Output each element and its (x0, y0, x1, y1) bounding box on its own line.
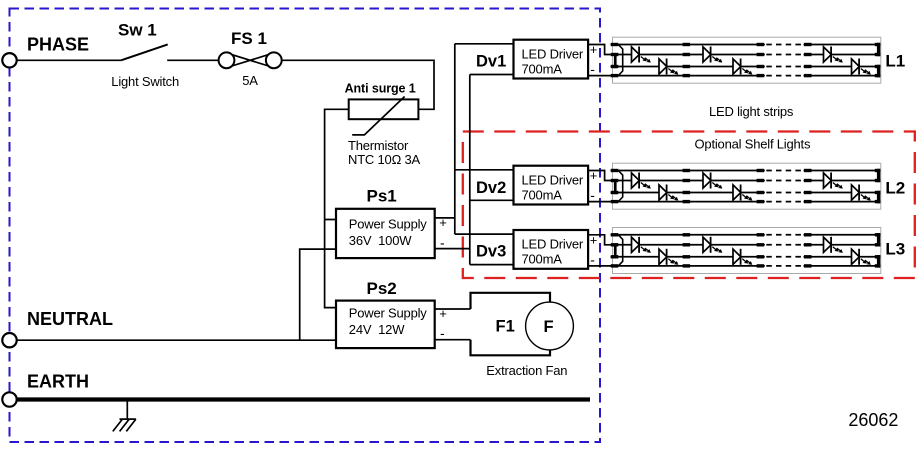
blue dashed enclosure border (10, 9, 601, 443)
LED strip L3 with driver Dv3 (514, 228, 881, 274)
svg-text:PHASE: PHASE (27, 35, 89, 55)
terminal NEUTRAL (2, 333, 16, 347)
svg-text:+: + (439, 215, 447, 230)
wire: phase run from terminal to switch (17, 59, 121, 61)
minus bus to LED drivers (470, 75, 514, 265)
svg-text:Dv3: Dv3 (476, 243, 506, 261)
svg-text:L2: L2 (885, 179, 905, 198)
earth wire (thick) (17, 397, 590, 401)
svg-text:-: - (440, 234, 445, 250)
wire: switch to fuse (167, 59, 219, 61)
svg-text:FS 1: FS 1 (231, 29, 267, 48)
svg-text:Sw 1: Sw 1 (118, 20, 157, 39)
svg-text:L3: L3 (885, 240, 905, 259)
power supply Ps2 (336, 301, 435, 349)
svg-text:+: + (439, 306, 447, 321)
svg-text:24V 12W: 24V 12W (349, 322, 405, 337)
svg-text:F: F (544, 318, 554, 336)
extraction fan F1 housing (471, 293, 551, 356)
LED strip L1 with driver Dv1 (514, 37, 881, 83)
svg-text:Dv1: Dv1 (476, 53, 506, 71)
Ps2 output wires to fan (435, 309, 471, 340)
terminal EARTH (2, 392, 16, 406)
svg-text:Light Switch: Light Switch (111, 74, 179, 89)
wire: fuse to thermistor (right drop) (282, 60, 434, 109)
svg-text:Anti surge 1: Anti surge 1 (345, 81, 416, 95)
fuse FS1 (219, 52, 282, 68)
Ps1 output wires (435, 218, 470, 249)
ground symbol (113, 400, 136, 432)
power supply Ps1 (336, 209, 435, 258)
svg-text:L1: L1 (885, 52, 905, 71)
svg-text:Extraction Fan: Extraction Fan (486, 363, 567, 378)
fan circle (526, 302, 574, 350)
svg-text:Power Supply: Power Supply (349, 217, 428, 232)
terminal PHASE (2, 53, 16, 67)
svg-text:EARTH: EARTH (27, 372, 89, 392)
svg-text:Dv2: Dv2 (476, 179, 506, 197)
svg-text:F1: F1 (496, 318, 515, 336)
svg-text:26062: 26062 (848, 410, 898, 430)
plus bus to LED drivers (455, 44, 514, 234)
wire: thermistor to live rail down to power supplies (325, 109, 349, 307)
svg-text:36V 100W: 36V 100W (349, 233, 412, 248)
wire: neutral run and branch to Ps1 (17, 249, 336, 340)
LED strip L2 with driver Dv2 (514, 163, 881, 209)
svg-text:Power Supply: Power Supply (349, 305, 428, 320)
svg-text:Ps2: Ps2 (367, 279, 397, 298)
svg-text:Ps1: Ps1 (367, 187, 397, 206)
svg-text:NTC 10Ω 3A: NTC 10Ω 3A (348, 152, 421, 167)
switch Sw1 blade (121, 44, 168, 60)
svg-text:LED light strips: LED light strips (709, 104, 794, 119)
thermistor Anti surge 1 (349, 97, 419, 135)
svg-text:Optional Shelf Lights: Optional Shelf Lights (695, 136, 811, 151)
svg-text:-: - (440, 325, 445, 341)
svg-text:5A: 5A (242, 73, 258, 88)
red dashed optional shelf lights box (463, 132, 915, 279)
svg-text:NEUTRAL: NEUTRAL (27, 309, 113, 329)
